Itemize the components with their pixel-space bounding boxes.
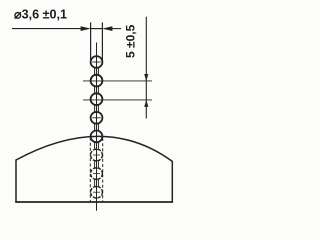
- extension line right (tangent of spheres): [101, 22, 103, 60]
- center tick sphere 8: [93, 191, 100, 193]
- vertical centerline: [96, 43, 98, 211]
- neck 1-2: [95, 67, 99, 75]
- neck 4-5: [95, 123, 99, 131]
- neck 3-4: [95, 105, 99, 113]
- center tick sphere 1: [92, 61, 100, 63]
- extension line left (tangent of spheres): [90, 22, 92, 60]
- center tick sphere 6: [93, 154, 100, 156]
- sphere 7 (hidden): [91, 168, 103, 180]
- center tick sphere 5: [92, 135, 100, 137]
- arrowhead right (pointing right at left extension line): [81, 26, 91, 31]
- arrowhead left (pointing left at right extension line): [102, 26, 112, 31]
- centerline sphere 2 / extension line for 5±0,5: [83, 80, 152, 82]
- neck 2-3: [95, 86, 99, 94]
- sphere 6 (hidden): [91, 149, 103, 161]
- sphere 5 (at dome apex): [91, 131, 103, 143]
- dome body outline: [16, 136, 172, 202]
- centerline sphere 3 / extension line for 5±0,5: [83, 99, 152, 101]
- arrowhead up (at lower centerline): [144, 100, 148, 107]
- sphere 1: [91, 56, 103, 68]
- bore wall right (hidden): [102, 138, 104, 202]
- svg-text:⌀3,6 ±0,1: ⌀3,6 ±0,1: [14, 7, 67, 21]
- neck 5-6 (hidden): [95, 142, 99, 150]
- neck 7-8 (hidden): [95, 179, 99, 187]
- leader line for Ø3,6 dimension: [12, 28, 85, 30]
- dimension line for 5 ±0,5: [145, 17, 147, 119]
- sphere 8 (hidden): [91, 186, 103, 198]
- svg-text:5 ±0,5: 5 ±0,5: [124, 24, 138, 58]
- sphere 2: [91, 75, 103, 87]
- bore wall left (hidden): [89, 138, 91, 202]
- center tick sphere 4: [92, 117, 100, 119]
- dome base line: [15, 201, 173, 203]
- dimension crossbar between extension lines: [91, 28, 103, 30]
- sphere 3: [91, 93, 103, 105]
- sphere 4: [91, 112, 103, 124]
- arrow tail line right: [109, 28, 122, 30]
- neck 6-7 (hidden): [95, 160, 99, 168]
- arrowhead down (at upper centerline): [144, 74, 148, 81]
- center tick sphere 7: [93, 173, 100, 175]
